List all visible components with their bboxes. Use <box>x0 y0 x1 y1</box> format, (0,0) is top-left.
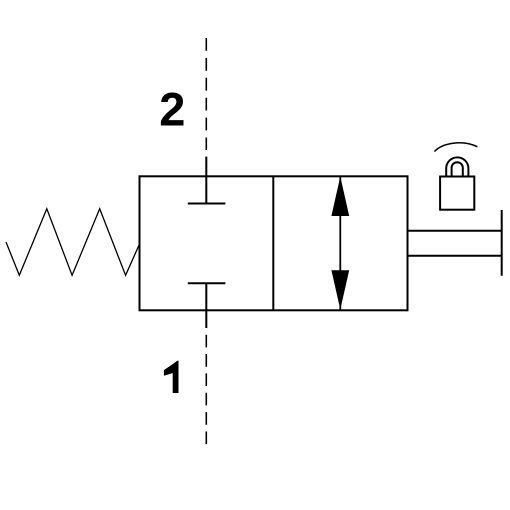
wire: envelope divider between positions <box>272 176 274 310</box>
spring (return spring, left) <box>6 209 139 275</box>
manual actuator (push-pull T handle, right) <box>408 210 502 276</box>
padlock (lockable actuator symbol) <box>440 157 474 209</box>
label 1 <box>164 361 179 393</box>
node: blocked port symbol top (closed position) <box>188 203 226 205</box>
arc above padlock <box>435 143 478 152</box>
node: blocked port symbol bottom (closed position) <box>188 283 226 328</box>
valve body (two-position envelope) <box>140 176 408 310</box>
wire: solid stem of port 2 into valve <box>205 157 207 204</box>
flow arrow (open position, double-headed) <box>331 177 349 310</box>
svg-text:2: 2 <box>159 83 185 136</box>
port line 1 (dashed below valve) <box>205 335 207 444</box>
port line 2 (dashed pilot line above valve) <box>205 38 207 150</box>
